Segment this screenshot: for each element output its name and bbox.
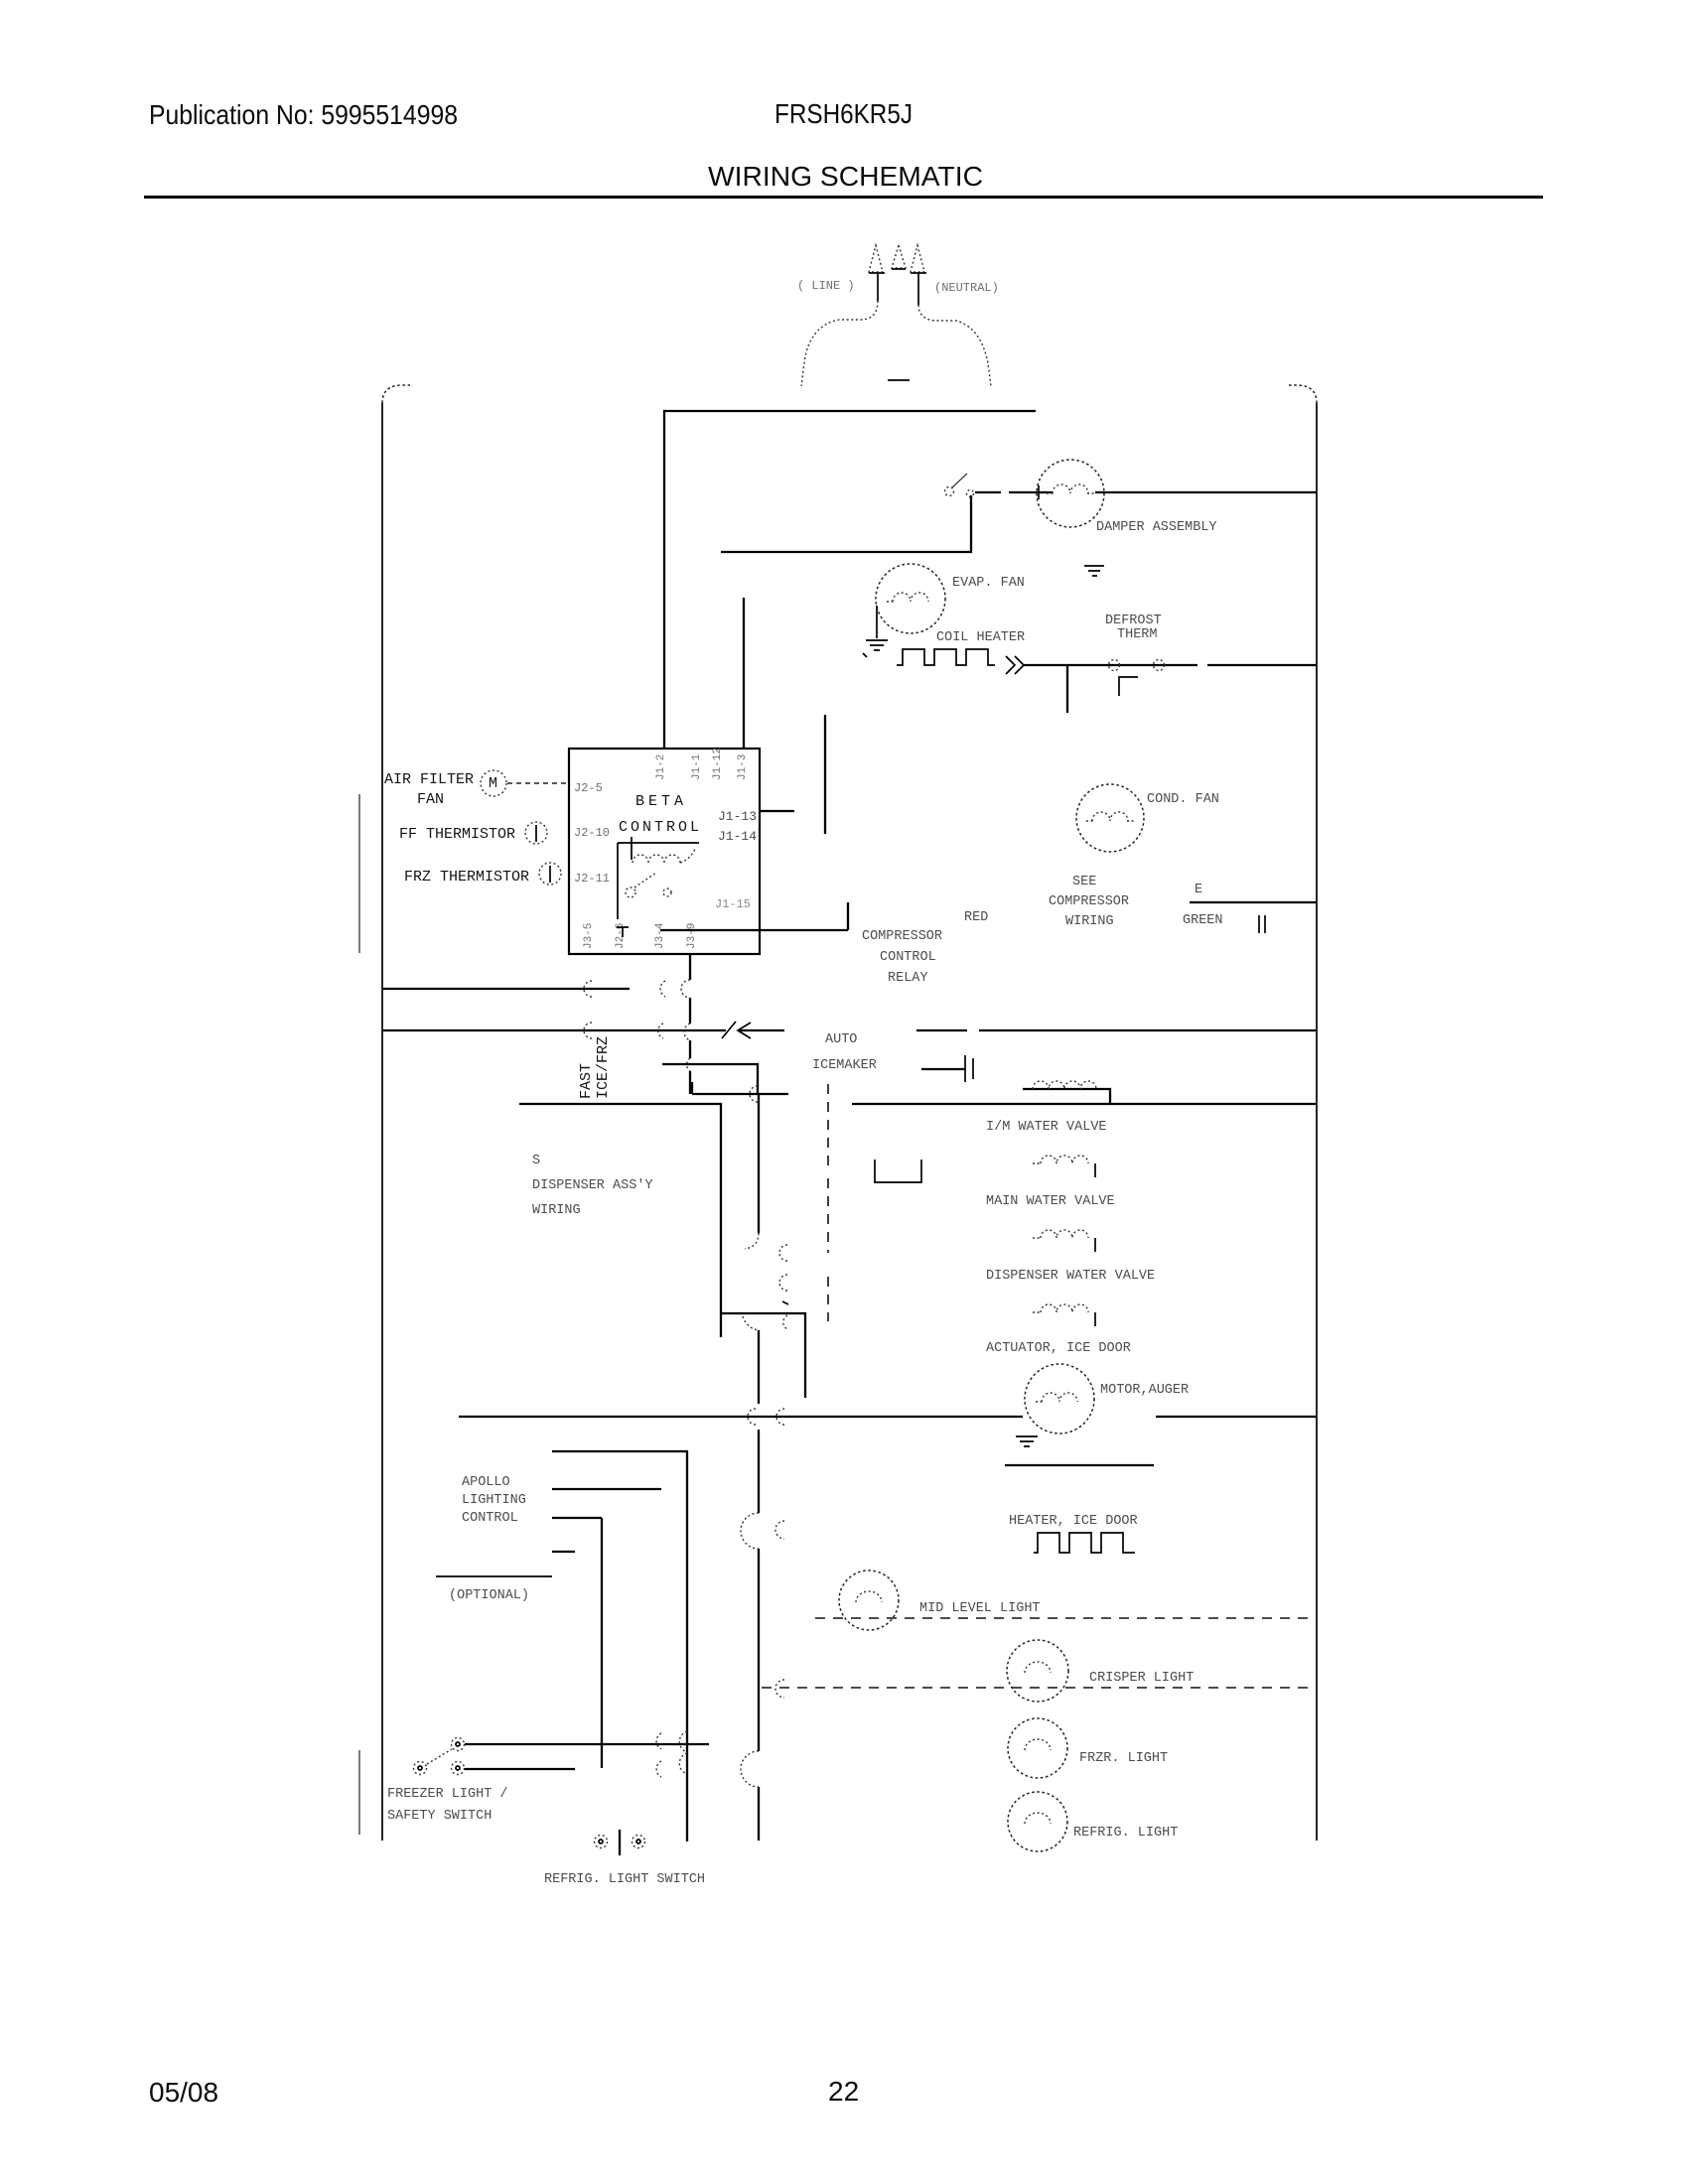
svg-text:COIL HEATER: COIL HEATER: [936, 630, 1025, 645]
svg-text:22: 22: [828, 2076, 859, 2107]
svg-text:THERM: THERM: [1117, 627, 1158, 642]
svg-text:MOTOR,AUGER: MOTOR,AUGER: [1100, 1383, 1189, 1398]
svg-text:MAIN WATER VALVE: MAIN WATER VALVE: [986, 1194, 1115, 1209]
svg-text:I/M WATER VALVE: I/M WATER VALVE: [986, 1120, 1107, 1135]
svg-text:WIRING SCHEMATIC: WIRING SCHEMATIC: [708, 161, 983, 192]
svg-text:E: E: [1195, 883, 1202, 897]
svg-text:GREEN: GREEN: [1183, 913, 1223, 928]
svg-text:J3-4: J3-4: [654, 922, 666, 949]
svg-text:(NEUTRAL): (NEUTRAL): [934, 281, 999, 295]
svg-text:J2-10: J2-10: [574, 826, 610, 840]
svg-text:BETA: BETA: [635, 793, 687, 810]
svg-text:DISPENSER WATER VALVE: DISPENSER WATER VALVE: [986, 1269, 1155, 1284]
svg-text:CONTROL: CONTROL: [462, 1511, 518, 1526]
svg-text:FRZ THERMISTOR: FRZ THERMISTOR: [404, 869, 529, 886]
svg-text:MID LEVEL LIGHT: MID LEVEL LIGHT: [919, 1601, 1041, 1616]
svg-text:J1-1: J1-1: [691, 753, 703, 780]
svg-text:REFRIG. LIGHT SWITCH: REFRIG. LIGHT SWITCH: [544, 1872, 705, 1887]
svg-text:COMPRESSOR: COMPRESSOR: [1049, 894, 1129, 909]
svg-text:FRZR. LIGHT: FRZR. LIGHT: [1079, 1751, 1168, 1766]
svg-text:Publication No: 5995514998: Publication No: 5995514998: [149, 99, 458, 130]
svg-text:J1-13: J1-13: [718, 809, 757, 824]
svg-text:REFRIG. LIGHT: REFRIG. LIGHT: [1073, 1826, 1178, 1841]
svg-text:RELAY: RELAY: [888, 971, 928, 986]
svg-text:FAST: FAST: [578, 1063, 595, 1099]
svg-text:J1-2: J1-2: [655, 754, 667, 780]
svg-text:ICEMAKER: ICEMAKER: [812, 1058, 877, 1073]
svg-text:S: S: [532, 1154, 540, 1168]
svg-text:COMPRESSOR: COMPRESSOR: [862, 929, 942, 944]
svg-text:J3-5: J3-5: [583, 923, 595, 949]
svg-text:COND. FAN: COND. FAN: [1147, 792, 1219, 807]
svg-text:J1-3: J1-3: [737, 754, 749, 780]
svg-text:FREEZER LIGHT /: FREEZER LIGHT /: [387, 1787, 508, 1802]
svg-text:FAN: FAN: [417, 791, 444, 808]
svg-text:DISPENSER ASS'Y: DISPENSER ASS'Y: [532, 1178, 653, 1193]
svg-text:CONTROL: CONTROL: [619, 819, 702, 836]
svg-text:CONTROL: CONTROL: [880, 950, 936, 965]
svg-text:(OPTIONAL): (OPTIONAL): [449, 1588, 529, 1603]
svg-text:DEFROST: DEFROST: [1105, 614, 1162, 628]
svg-text:LIGHTING: LIGHTING: [462, 1493, 526, 1508]
svg-text:DAMPER ASSEMBLY: DAMPER ASSEMBLY: [1096, 520, 1217, 535]
svg-text:05/08: 05/08: [149, 2077, 218, 2108]
svg-text:WIRING: WIRING: [532, 1203, 581, 1218]
svg-text:J1-15: J1-15: [715, 897, 751, 911]
svg-text:AIR FILTER: AIR FILTER: [384, 771, 474, 788]
svg-text:CRISPER LIGHT: CRISPER LIGHT: [1089, 1671, 1194, 1686]
svg-text:J2-11: J2-11: [574, 872, 610, 886]
svg-text:WIRING: WIRING: [1065, 914, 1114, 929]
svg-text:EVAP. FAN: EVAP. FAN: [952, 576, 1025, 591]
svg-text:J2-5: J2-5: [574, 781, 603, 795]
svg-text:J3-9: J3-9: [686, 923, 698, 949]
svg-text:SEE: SEE: [1072, 875, 1096, 889]
svg-text:J1-12: J1-12: [712, 748, 724, 780]
svg-text:( LINE ): ( LINE ): [797, 279, 855, 293]
svg-text:ICE/FRZ: ICE/FRZ: [595, 1036, 612, 1099]
svg-text:RED: RED: [964, 910, 988, 925]
svg-text:HEATER, ICE DOOR: HEATER, ICE DOOR: [1009, 1514, 1138, 1529]
svg-text:APOLLO: APOLLO: [462, 1475, 510, 1490]
svg-text:SAFETY SWITCH: SAFETY SWITCH: [387, 1809, 492, 1824]
svg-text:FRSH6KR5J: FRSH6KR5J: [774, 98, 913, 129]
svg-text:ACTUATOR, ICE DOOR: ACTUATOR, ICE DOOR: [986, 1341, 1131, 1356]
svg-text:J1-14: J1-14: [718, 829, 757, 844]
svg-text:M: M: [489, 775, 497, 792]
svg-text:FF THERMISTOR: FF THERMISTOR: [399, 826, 515, 843]
svg-text:AUTO: AUTO: [825, 1032, 857, 1047]
